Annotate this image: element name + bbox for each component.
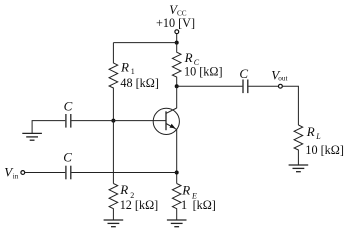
ground below R2 [104,220,124,227]
svg-text:in: in [13,173,19,181]
svg-text:R: R [119,182,128,197]
svg-text:C: C [64,98,73,113]
transistor Q1 [153,108,179,135]
resistor R2 [109,184,118,221]
wire capacitor to Vout [249,85,279,87]
label RL 10 [kOhm] [305,124,344,157]
wire Vout to load corner [282,86,298,125]
wire top horizontal [113,42,176,44]
wire input capacitor to emitter node [72,172,177,174]
ground left of bypass capacitor [22,133,42,140]
wire Vin to input capacitor [25,172,65,174]
junction dot collector node [175,84,179,88]
svg-text:10 [kΩ]: 10 [kΩ] [184,65,223,79]
svg-text:R: R [306,124,315,139]
ground below RL [289,165,309,172]
capacitor C bypass [66,114,71,128]
wire collector node to transistor collector [176,86,178,108]
label RC 10 [kOhm] [184,50,223,79]
capacitor C output [243,80,248,94]
svg-text:R: R [120,60,129,75]
svg-text:10 [kΩ]: 10 [kΩ] [305,143,344,157]
wire bypass capacitor to base node [72,120,114,122]
wire transistor emitter down to RE [176,129,178,183]
label R1 48 [kOhm] [120,60,159,91]
svg-text:12 [kΩ]: 12 [kΩ] [120,198,159,212]
capacitor C input [66,166,71,180]
wire base node to transistor base [113,120,166,122]
svg-text:R: R [181,183,190,198]
resistor RE [172,184,181,221]
node Vout terminal [279,84,283,88]
junction dot emitter node [175,171,179,175]
resistor R1 [109,43,118,121]
label R2 12 [kOhm] [119,182,158,212]
svg-text:1: 1 [131,67,135,76]
resistor RL [294,125,303,165]
label Vout [271,68,287,83]
svg-text:C: C [239,66,248,81]
wire ground to bypass capacitor [32,121,65,134]
node Vin terminal [21,171,25,175]
resistor RC [172,43,181,87]
label Vcc [169,3,187,17]
wire collector to output capacitor [177,85,243,87]
svg-text:L: L [315,132,321,141]
node Vcc terminal [175,30,179,43]
svg-text:C: C [63,149,72,164]
svg-text:+10 [V]: +10 [V] [156,16,195,30]
svg-text:48 [kΩ]: 48 [kΩ] [120,76,159,90]
svg-text:1 [kΩ]: 1 [kΩ] [181,198,216,212]
label RE 1 [kOhm] [181,183,216,212]
wire base node down to R2 [112,121,114,184]
label Vin [4,165,19,181]
svg-text:R: R [184,50,193,65]
svg-text:out: out [278,75,287,83]
junction dot top [175,41,179,45]
ground below RE [167,220,187,227]
junction dot base node [111,119,115,123]
